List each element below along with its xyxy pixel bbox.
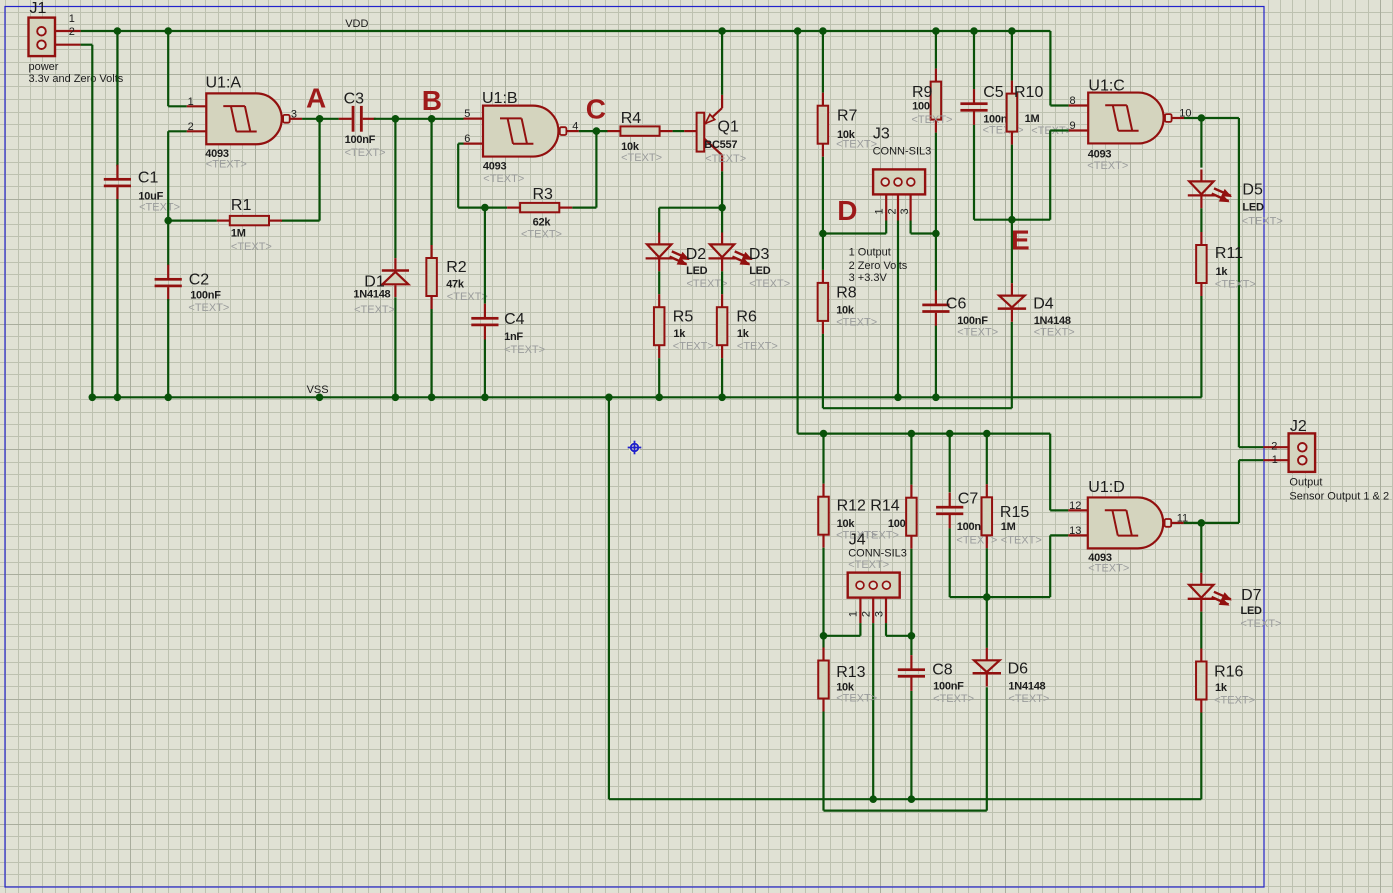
svg-text:R13: R13	[836, 664, 865, 681]
op U1:D NAND gate 4093	[1088, 497, 1163, 548]
diode D6 1N4148	[974, 660, 1000, 672]
connector J4 CONN-SIL3	[848, 573, 900, 598]
junction lower rail R12	[820, 430, 828, 438]
svg-text:1M: 1M	[231, 227, 246, 239]
svg-text:B: B	[422, 85, 442, 116]
svg-text:R12: R12	[837, 498, 866, 515]
wire R16 to bottom rail	[1200, 713, 1202, 800]
wire C3 to node B	[374, 118, 464, 120]
wire R6 to VSS	[721, 358, 723, 397]
wire D7 to R16	[1200, 612, 1202, 649]
svg-text:100nF: 100nF	[345, 134, 376, 146]
wire rail to R14	[910, 434, 912, 485]
net VSS rail	[92, 396, 1201, 398]
bottom rail	[609, 798, 1201, 800]
J1 pin 2 lead	[55, 44, 81, 46]
svg-text:<TEXT>: <TEXT>	[836, 692, 877, 704]
wire rail to R15	[986, 434, 988, 485]
svg-text:C3: C3	[344, 90, 365, 107]
wire VDD corner to U1:C pin8	[1049, 31, 1051, 106]
LED D3	[710, 244, 734, 257]
svg-text:Sensor Output 1 & 2: Sensor Output 1 & 2	[1289, 491, 1389, 503]
wire VSS drop to bottom rail	[608, 397, 610, 799]
wire J3 pin1 to node D	[885, 221, 887, 234]
resistor R12	[818, 497, 829, 535]
svg-text:<TEXT>: <TEXT>	[1215, 279, 1256, 291]
wire R13 to D6 return rail	[822, 712, 824, 811]
svg-text:3: 3	[899, 208, 911, 214]
svg-text:1 Output: 1 Output	[849, 246, 891, 258]
svg-text:<TEXT>: <TEXT>	[1241, 618, 1282, 630]
junction lower rail C7	[946, 430, 954, 438]
connector J1	[29, 18, 56, 57]
wire J4 rail to R13	[822, 636, 824, 648]
wire down to D2	[658, 208, 660, 233]
wire U1:A pin2 down to R1/C2	[168, 130, 187, 132]
capacitor C5	[960, 102, 987, 105]
resistor R6	[717, 307, 728, 345]
capacitor C8	[898, 668, 925, 671]
J2 pin leads	[1263, 446, 1288, 448]
wire VDD to C5	[973, 31, 975, 89]
wire rail corner to U1:D pin12	[1049, 434, 1051, 511]
svg-text:3: 3	[291, 108, 297, 120]
wire down to D3	[721, 208, 723, 233]
svg-text:LED: LED	[749, 265, 771, 277]
wire C8 to bottom rail	[910, 691, 912, 799]
junction pin13 rail	[983, 593, 991, 601]
svg-text:1N4148: 1N4148	[1034, 315, 1071, 327]
wire rail to C7	[949, 434, 951, 493]
wire node B down to D1	[394, 119, 396, 258]
svg-text:8: 8	[1070, 95, 1076, 107]
junction VSS drop	[605, 394, 613, 402]
svg-text:R1: R1	[231, 197, 252, 214]
svg-text:12: 12	[1069, 500, 1081, 512]
svg-text:BC557: BC557	[704, 139, 737, 151]
svg-text:1: 1	[873, 208, 885, 214]
node D junction	[819, 230, 827, 238]
LED D5	[1189, 181, 1213, 194]
svg-text:J1: J1	[30, 0, 47, 17]
wire R8 down past VSS to D4 return	[822, 334, 824, 408]
wire U1:C output to J2 pin2	[1184, 117, 1239, 119]
svg-text:1M: 1M	[1001, 521, 1016, 533]
wire J4 pin3 rail to C8	[910, 636, 912, 655]
wire node D to R8	[822, 234, 824, 270]
wire VDD to R10	[1011, 31, 1013, 81]
wire C1 to VSS	[116, 199, 118, 397]
svg-text:R9: R9	[912, 84, 933, 101]
resistor R11	[1196, 245, 1207, 283]
svg-text:C5: C5	[983, 84, 1004, 101]
svg-text:CONN-SIL3: CONN-SIL3	[873, 146, 932, 158]
svg-text:3.3v and Zero Volts: 3.3v and Zero Volts	[29, 73, 124, 85]
op U1:A NAND gate 4093	[206, 93, 281, 144]
wire C4 to VSS	[484, 340, 486, 398]
svg-text:13: 13	[1069, 525, 1081, 537]
capacitor C4	[471, 317, 498, 320]
junction J4 pin3 rail	[908, 632, 916, 640]
resistor R13	[818, 661, 829, 699]
svg-text:<TEXT>: <TEXT>	[1001, 535, 1042, 547]
svg-text:<TEXT>: <TEXT>	[705, 153, 746, 165]
capacitor C7	[936, 506, 963, 509]
svg-text:LED: LED	[686, 265, 708, 277]
wire VDD to Q1 emitter	[721, 31, 723, 95]
op U1:C NAND gate 4093	[1088, 93, 1163, 144]
svg-text:<TEXT>: <TEXT>	[912, 114, 953, 126]
wire VDD to U1:A pin1	[167, 31, 169, 106]
svg-text:10k: 10k	[836, 305, 855, 317]
wire U1:D output down to D7	[1200, 523, 1202, 573]
wire pin13 rail to D6	[986, 597, 988, 648]
wire J1 pin2 to VSS	[81, 44, 93, 46]
wire C2 to VSS	[167, 299, 169, 397]
svg-text:1: 1	[188, 96, 194, 108]
svg-text:<TEXT>: <TEXT>	[957, 326, 998, 338]
svg-text:<TEXT>: <TEXT>	[345, 147, 386, 159]
svg-text:D2: D2	[686, 246, 707, 263]
svg-text:D4: D4	[1033, 295, 1054, 312]
svg-text:2: 2	[861, 611, 873, 617]
wire U1:D output to J2 pin1	[1184, 522, 1239, 524]
junction U1:D output	[1198, 519, 1206, 527]
node B junctions	[392, 115, 400, 123]
svg-text:U1:C: U1:C	[1088, 78, 1124, 95]
junction R9/C6	[932, 230, 940, 238]
svg-text:Output: Output	[1289, 476, 1322, 488]
resistor R15	[982, 497, 993, 535]
VDD junction dots	[114, 27, 122, 35]
svg-text:R2: R2	[446, 259, 467, 276]
svg-text:5: 5	[464, 108, 470, 120]
svg-text:1: 1	[1272, 454, 1278, 466]
wire R4 to Q1 base	[673, 130, 685, 132]
svg-text:1nF: 1nF	[504, 331, 523, 343]
capacitor C3	[352, 106, 355, 132]
svg-text:R14: R14	[870, 498, 899, 515]
wire node E to D4	[1011, 220, 1013, 284]
svg-text:<TEXT>: <TEXT>	[621, 152, 662, 164]
wire node E rail to U1:C pin9	[1049, 131, 1051, 220]
svg-text:100n: 100n	[957, 521, 982, 533]
junction lower rail R15	[983, 430, 991, 438]
wire pin13 rail to U1:D pin13	[1049, 535, 1051, 597]
wire R12 to J4 rail	[822, 548, 824, 636]
node C junction	[593, 127, 601, 135]
svg-text:A: A	[306, 82, 326, 113]
svg-text:R15: R15	[1000, 504, 1029, 521]
wire VDD to R7	[822, 31, 824, 93]
svg-text:<TEXT>: <TEXT>	[1008, 693, 1049, 705]
svg-text:R5: R5	[673, 309, 694, 326]
svg-text:<TEXT>: <TEXT>	[673, 341, 714, 353]
svg-text:CONN-SIL3: CONN-SIL3	[848, 547, 907, 559]
svg-text:4093: 4093	[483, 161, 507, 173]
svg-text:J2: J2	[1290, 418, 1307, 435]
resistor R2	[426, 258, 437, 296]
svg-text:10k: 10k	[837, 518, 856, 530]
svg-text:3: 3	[873, 611, 885, 617]
wire R3 to node C riser	[572, 207, 596, 209]
svg-text:100nF: 100nF	[190, 289, 221, 301]
junction Q1/D3	[718, 204, 726, 212]
svg-text:100nF: 100nF	[957, 315, 988, 327]
node E junction	[1008, 216, 1016, 224]
wire R7 to node D	[822, 157, 824, 234]
junction U1:C output	[1198, 114, 1206, 122]
svg-text:<TEXT>: <TEXT>	[749, 278, 790, 290]
svg-text:1: 1	[848, 611, 860, 617]
svg-text:LED: LED	[1242, 201, 1264, 213]
junction lower rail R14	[908, 430, 916, 438]
svg-text:R6: R6	[736, 309, 757, 326]
resistor R8	[818, 283, 829, 321]
svg-text:R7: R7	[837, 108, 858, 125]
wire R14 to J4 pin3 rail	[910, 549, 912, 636]
wire LED rail D2-D3	[659, 207, 722, 209]
svg-text:<TEXT>: <TEXT>	[933, 693, 974, 705]
wire J4 pin1 to rail	[859, 623, 861, 636]
svg-text:<TEXT>: <TEXT>	[737, 341, 778, 353]
wire D1 to VSS	[394, 297, 396, 397]
svg-text:J3: J3	[873, 126, 890, 143]
svg-text:D: D	[837, 195, 857, 226]
wire U1:A output to node A	[302, 118, 339, 120]
wire R5 to VSS	[658, 358, 660, 397]
capacitor C2	[155, 278, 182, 281]
svg-text:100: 100	[888, 518, 906, 530]
svg-text:<TEXT>: <TEXT>	[1242, 216, 1283, 228]
wire J4 pin3 to rail	[885, 623, 887, 636]
svg-text:C6: C6	[946, 295, 967, 312]
junction J4 pin2 bottom	[869, 795, 877, 803]
wire D5 to R11	[1200, 208, 1202, 232]
svg-text:47k: 47k	[446, 278, 465, 290]
wire C5 to node E rail	[973, 125, 975, 220]
wire VDD to C1	[116, 31, 118, 166]
svg-text:2: 2	[1271, 441, 1277, 453]
wire R2 to VSS	[431, 309, 433, 397]
svg-text:<TEXT>: <TEXT>	[1034, 326, 1075, 338]
svg-text:2: 2	[69, 26, 75, 38]
J1 pin 1 lead	[55, 30, 81, 32]
wire J4 pin2 to bottom rail	[872, 623, 874, 799]
wire U1:C output down to D5	[1200, 118, 1202, 168]
svg-text:R11: R11	[1215, 245, 1243, 262]
svg-text:1N4148: 1N4148	[1008, 681, 1045, 693]
origin marker	[629, 442, 641, 454]
svg-text:C8: C8	[932, 661, 953, 678]
VSS junction dots	[89, 394, 97, 402]
svg-text:C: C	[586, 93, 606, 124]
svg-text:J4: J4	[849, 531, 866, 548]
svg-text:<TEXT>: <TEXT>	[354, 304, 395, 316]
svg-text:1N4148: 1N4148	[353, 289, 390, 301]
wire R10 to node E	[1011, 145, 1013, 220]
svg-text:VDD: VDD	[345, 18, 368, 30]
wire junction to C6	[935, 234, 937, 291]
svg-text:100: 100	[912, 100, 930, 112]
transistor Q1 BC557	[684, 130, 696, 132]
svg-text:LED: LED	[1241, 605, 1263, 617]
wire R15 to pin13 rail	[986, 548, 988, 597]
resistor R16	[1196, 662, 1207, 700]
connector J2	[1289, 433, 1316, 472]
svg-text:<TEXT>: <TEXT>	[1214, 695, 1255, 707]
svg-text:U1:D: U1:D	[1088, 479, 1124, 496]
wire VDD to R9	[935, 31, 937, 69]
svg-text:D6: D6	[1008, 661, 1029, 678]
svg-text:<TEXT>: <TEXT>	[139, 202, 180, 214]
wire U1:B pin6 loop to R3	[458, 143, 463, 145]
svg-text:<TEXT>: <TEXT>	[483, 173, 524, 185]
svg-text:3 +3.3V: 3 +3.3V	[849, 272, 888, 284]
svg-text:<TEXT>: <TEXT>	[521, 229, 562, 241]
svg-text:100nF: 100nF	[933, 681, 964, 693]
svg-text:<TEXT>: <TEXT>	[231, 241, 272, 253]
wire J3 pin3 to +3.3V column	[909, 221, 911, 234]
LED D2	[647, 244, 671, 257]
svg-text:<TEXT>: <TEXT>	[848, 559, 889, 571]
wire node B down to R2	[431, 119, 433, 245]
svg-text:C1: C1	[138, 170, 159, 187]
svg-text:R10: R10	[1014, 84, 1043, 101]
svg-text:1: 1	[69, 13, 75, 25]
wire D3 to R6	[721, 271, 723, 294]
node A junction	[316, 115, 324, 123]
wire C6 to VSS	[935, 326, 937, 398]
svg-text:Q1: Q1	[718, 118, 739, 135]
wire D2 to R5	[658, 271, 660, 294]
wire R9 to junction	[935, 133, 937, 234]
diode D1 1N4148	[382, 269, 409, 272]
svg-text:E: E	[1011, 225, 1030, 256]
svg-text:power: power	[29, 61, 59, 73]
svg-text:R16: R16	[1214, 664, 1243, 681]
svg-text:C7: C7	[958, 491, 979, 508]
svg-text:R8: R8	[836, 284, 857, 301]
resistor R9	[931, 82, 942, 120]
svg-text:2: 2	[886, 208, 898, 214]
resistor R10	[1007, 94, 1018, 132]
svg-text:1k: 1k	[737, 328, 750, 340]
svg-text:6: 6	[464, 133, 470, 145]
svg-text:4093: 4093	[1088, 148, 1112, 160]
diode D4 1N4148	[999, 296, 1025, 308]
wire VDD down to lower rail	[796, 31, 798, 434]
svg-text:4: 4	[572, 121, 578, 133]
svg-text:R4: R4	[621, 110, 642, 127]
svg-text:<TEXT>: <TEXT>	[188, 302, 229, 314]
svg-text:1k: 1k	[1215, 682, 1228, 694]
svg-text:<TEXT>: <TEXT>	[1088, 562, 1129, 574]
wire R1 to pin2 riser	[168, 220, 217, 222]
connector J3 CONN-SIL3	[873, 169, 925, 194]
wire R3 junction down to C4	[484, 208, 486, 304]
resistor R5	[654, 307, 665, 345]
wire Q1 collector to LED rail	[721, 171, 723, 207]
svg-text:D5: D5	[1242, 181, 1263, 198]
svg-text:<TEXT>: <TEXT>	[836, 139, 877, 151]
J4 pin leads	[859, 598, 861, 624]
wire node A down to R1	[319, 119, 321, 221]
svg-text:<TEXT>: <TEXT>	[504, 344, 545, 356]
svg-text:<TEXT>: <TEXT>	[836, 316, 877, 328]
junction R3/C4	[481, 204, 489, 212]
svg-text:1M: 1M	[1025, 113, 1040, 125]
resistor R4	[620, 126, 659, 135]
junction J4 pin1 rail	[820, 632, 828, 640]
junction R1/C2	[164, 217, 172, 225]
svg-text:C2: C2	[189, 271, 210, 288]
wire J3 pin2 to VSS	[897, 221, 899, 398]
net VDD rail	[81, 30, 1051, 32]
LED D7	[1189, 585, 1213, 598]
wire node D to J3 pin1	[823, 232, 886, 234]
capacitor C1	[104, 178, 131, 181]
svg-text:D3: D3	[749, 246, 770, 263]
svg-text:62k: 62k	[533, 216, 552, 228]
junction C8 bottom	[908, 795, 916, 803]
resistor R1	[230, 216, 269, 225]
capacitor C6	[922, 304, 949, 307]
wire rail to R12	[822, 434, 824, 484]
svg-text:9: 9	[1070, 120, 1076, 132]
svg-text:U1:B: U1:B	[482, 90, 518, 107]
wire R11 to VSS	[1200, 296, 1202, 397]
resistor R14	[906, 498, 917, 536]
svg-text:<TEXT>: <TEXT>	[1087, 160, 1128, 172]
resistor R3	[520, 203, 559, 212]
svg-text:D7: D7	[1241, 587, 1262, 604]
op U1:B NAND gate 4093	[483, 106, 558, 157]
svg-text:1k: 1k	[673, 328, 686, 340]
svg-text:2: 2	[188, 121, 194, 133]
svg-text:U1:A: U1:A	[206, 75, 242, 92]
resistor R7	[818, 106, 829, 144]
svg-text:R3: R3	[533, 186, 554, 203]
wire C7 down to pin13 rail	[949, 528, 951, 597]
svg-text:1k: 1k	[1216, 266, 1229, 278]
J3 pin leads	[885, 194, 887, 220]
wire U1:B output to node C	[579, 130, 608, 132]
svg-text:<TEXT>: <TEXT>	[447, 291, 488, 303]
svg-text:C4: C4	[504, 311, 525, 328]
svg-text:<TEXT>: <TEXT>	[206, 159, 247, 171]
